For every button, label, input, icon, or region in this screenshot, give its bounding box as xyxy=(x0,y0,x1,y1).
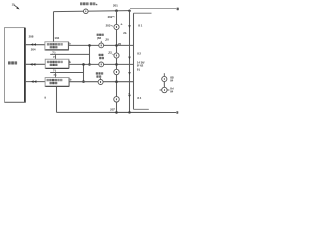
tick above row3 meter xyxy=(99,78,102,79)
label below meter row1 (2 lines) xyxy=(99,54,104,59)
bottom rail xyxy=(57,111,177,113)
node circle on top rail xyxy=(84,9,89,14)
svg-text:,22: ,22 xyxy=(108,50,112,54)
controller box text xyxy=(8,61,17,64)
stub into box3 top xyxy=(55,73,57,78)
driver box3 text xyxy=(47,79,63,84)
svg-text:2b: 2b xyxy=(123,31,126,35)
stub into box2 top xyxy=(55,54,57,59)
bottom-right inner corner xyxy=(134,108,149,110)
driver box 1 xyxy=(45,42,69,50)
meter circle row3 xyxy=(98,80,103,85)
meter circle bus (3rd) xyxy=(114,69,119,74)
svg-text:7-): 7-) xyxy=(53,69,56,73)
figure pointer arrow (top-left) xyxy=(14,5,19,8)
vertical link x83.8 xyxy=(83,64,85,81)
current arrowheads on x129.5 xyxy=(128,25,131,28)
top rail drop to box1 xyxy=(53,12,55,42)
svg-text:8 2: 8 2 xyxy=(137,52,141,56)
AC source upper circle xyxy=(163,73,165,76)
double arrowheads wire1 xyxy=(31,43,34,46)
row1 wire (driver1 output) xyxy=(69,44,134,46)
dash left of lower AC circle xyxy=(160,89,162,91)
double arrowheads wire3 xyxy=(31,80,34,83)
AC source lower circle xyxy=(162,87,167,92)
svg-text:203: 203 xyxy=(106,23,111,27)
upper-right line xyxy=(130,8,176,10)
row2 wire (driver2 output) xyxy=(69,63,133,65)
driver box 3 xyxy=(45,78,69,87)
wire: controller to driver box 2 xyxy=(26,63,45,65)
svg-text:204: 204 xyxy=(31,48,36,52)
junction dot top rail x129.5 xyxy=(128,9,131,12)
bottom rail end label xyxy=(176,111,178,113)
svg-text:104: 104 xyxy=(54,36,59,40)
controller box (left large box) xyxy=(5,28,25,103)
row3 wire (driver3 output) xyxy=(69,81,133,83)
driver box 2 xyxy=(45,59,69,68)
junction dot top rail x116 xyxy=(115,9,118,12)
svg-text:8 1: 8 1 xyxy=(138,23,142,27)
junction dot row3/bus xyxy=(115,80,118,83)
stray tick left of bottom stub xyxy=(44,97,46,99)
svg-text:208: 208 xyxy=(29,35,34,39)
bottom rail junction dots xyxy=(115,111,118,114)
top rail label (hangul blob) xyxy=(80,2,97,5)
driver box1 text xyxy=(47,43,63,48)
svg-text:e.: e. xyxy=(121,22,123,26)
svg-text:202: 202 xyxy=(108,15,113,19)
driver box2 text xyxy=(47,61,63,66)
wire: controller to driver box 1 xyxy=(26,44,45,46)
right bus vertical x133.8 xyxy=(133,13,135,109)
svg-text:207: 207 xyxy=(109,108,115,112)
vertical line x129.5 xyxy=(129,11,131,113)
label above meter row3 (2 lines) xyxy=(96,72,103,77)
top rail xyxy=(54,11,131,12)
junction dot row2/bus xyxy=(115,63,118,66)
vertical link x89.3 xyxy=(89,45,91,64)
tick above row1 meter xyxy=(100,41,102,43)
svg-text:8 4: 8 4 xyxy=(137,96,141,100)
sub line below box2 xyxy=(50,72,83,74)
svg-text:7-): 7-) xyxy=(52,51,55,55)
svg-text:,20: ,20 xyxy=(105,38,109,42)
junction dot row1/bus xyxy=(115,44,118,47)
meter circle on bus (top) xyxy=(114,24,119,29)
meter circle bus (4th) xyxy=(114,97,120,103)
sub line below box1 xyxy=(50,53,89,55)
meter circle row1 xyxy=(99,43,104,48)
stub box3 bottom to bottom rail xyxy=(56,87,58,113)
svg-text:,20: ,20 xyxy=(117,42,121,46)
end tick label a xyxy=(177,8,179,11)
svg-text:(82: (82 xyxy=(97,36,101,40)
corner line top-right xyxy=(134,12,152,14)
double arrowheads wire2 xyxy=(30,63,33,66)
svg-text:8 ): 8 ) xyxy=(137,68,140,72)
meter circle row2 xyxy=(99,62,104,67)
meter circle bus (2nd) xyxy=(114,53,119,58)
svg-text:201: 201 xyxy=(113,3,118,7)
wire: controller to driver box 3 xyxy=(26,81,45,83)
label above meter row1 (hangul blobs, 2 lines) xyxy=(97,34,104,36)
AC inter-circle link xyxy=(163,82,165,88)
vertical bus x116.4 xyxy=(116,11,118,113)
